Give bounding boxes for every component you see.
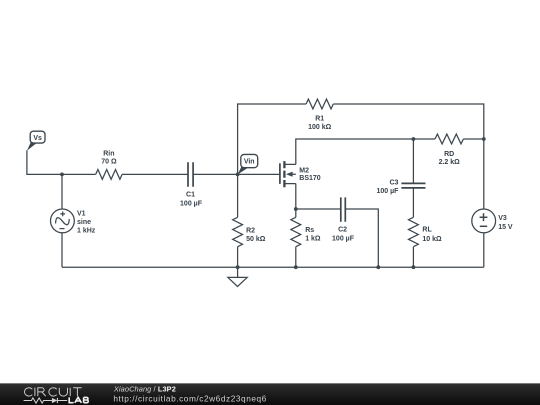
resistor RL (409, 217, 443, 246)
logo CIRCUIT lettering (24, 388, 81, 396)
node drain junction (412, 137, 416, 141)
svg-text:50 kΩ: 50 kΩ (246, 236, 266, 243)
wire Vin vertical to R1 rail (238, 104, 307, 174)
wire drain node down to C3 (412, 139, 414, 183)
wire source to node (295, 184, 297, 209)
node Rs rail junction (294, 265, 298, 269)
svg-text:R2: R2 (246, 227, 255, 234)
svg-text:100 µF: 100 µF (180, 200, 203, 207)
wire R1 to VDD corner (333, 104, 484, 209)
svg-text:C1: C1 (186, 191, 195, 198)
node RL rail junction (412, 265, 416, 269)
resistor Rin (96, 151, 122, 180)
wire RL bottom (412, 247, 414, 268)
svg-text:10 kΩ: 10 kΩ (422, 236, 442, 243)
node source junction (294, 207, 298, 211)
wire bottom rail (62, 266, 484, 268)
node VDD junction (482, 137, 486, 141)
resistor RD (435, 134, 463, 166)
ground (228, 267, 247, 286)
wire source node to C2 (296, 208, 341, 210)
capacitor C1 (180, 162, 203, 207)
svg-text:Vs: Vs (33, 135, 42, 142)
svg-text:100 kΩ: 100 kΩ (308, 124, 332, 131)
wire V3 bottom to rail (483, 233, 485, 267)
svg-text:XiaoChang / L3P2: XiaoChang / L3P2 (113, 385, 176, 394)
svg-text:RL: RL (422, 227, 432, 234)
svg-text:R1: R1 (315, 115, 324, 122)
svg-text:C2: C2 (338, 227, 347, 234)
svg-text:RD: RD (444, 151, 454, 158)
wire drain to RD (296, 139, 435, 164)
node ground rail junction (236, 265, 240, 269)
svg-text:2.2 kΩ: 2.2 kΩ (439, 159, 461, 166)
svg-text:Vin: Vin (244, 159, 255, 166)
svg-text:BS170: BS170 (299, 175, 321, 182)
svg-text:1 kHz: 1 kHz (77, 228, 96, 235)
svg-text:M2: M2 (299, 167, 309, 174)
capacitor C2 (332, 197, 355, 242)
svg-text:V3: V3 (498, 215, 507, 222)
svg-text:Rin: Rin (103, 151, 114, 158)
wire input left segment (27, 150, 96, 174)
svg-text:1 kΩ: 1 kΩ (305, 236, 321, 243)
resistor Rs (291, 217, 321, 246)
wire C2 to down branch (345, 209, 378, 267)
svg-text:15 V: 15 V (498, 224, 513, 231)
logo LAB lettering (69, 397, 88, 403)
logo schematic squiggle (24, 398, 68, 403)
wire Rs top lead (295, 209, 297, 217)
net flag Vin (238, 154, 258, 174)
svg-text:C3: C3 (389, 180, 398, 187)
wire V1 top (61, 174, 63, 209)
transistor M2 (NMOS BS170) (280, 161, 321, 187)
svg-text:sine: sine (77, 219, 91, 226)
wire R2 bottom lead (237, 247, 239, 268)
node Vin junction (236, 173, 240, 177)
voltage source V1 (sine) (51, 209, 96, 235)
svg-text:100 µF: 100 µF (332, 235, 355, 242)
wire RD to VDD (463, 138, 483, 140)
wire R2 top lead (237, 174, 239, 217)
svg-text:100 µF: 100 µF (376, 188, 399, 195)
resistor R2 (233, 217, 266, 246)
wire Rin to C1 (122, 173, 188, 175)
svg-text:http://circuitlab.com/c2w6dz23: http://circuitlab.com/c2w6dz23qneq6 (113, 393, 266, 403)
svg-text:Rs: Rs (305, 227, 314, 234)
footer bar (0, 383, 540, 405)
node input junction (60, 173, 64, 177)
wire V1 bottom to rail (61, 233, 63, 267)
wire C3 to RL (412, 188, 414, 217)
capacitor C3 (376, 180, 425, 196)
node C2 branch rail junction (376, 265, 380, 269)
resistor R1 (306, 99, 333, 131)
net flag Vs (27, 131, 45, 151)
svg-text:70 Ω: 70 Ω (101, 158, 117, 165)
wire C1 to gate (193, 173, 279, 175)
wire Rs bottom lead (295, 247, 297, 268)
svg-text:V1: V1 (77, 211, 86, 218)
voltage source V3 (DC) (472, 209, 513, 233)
